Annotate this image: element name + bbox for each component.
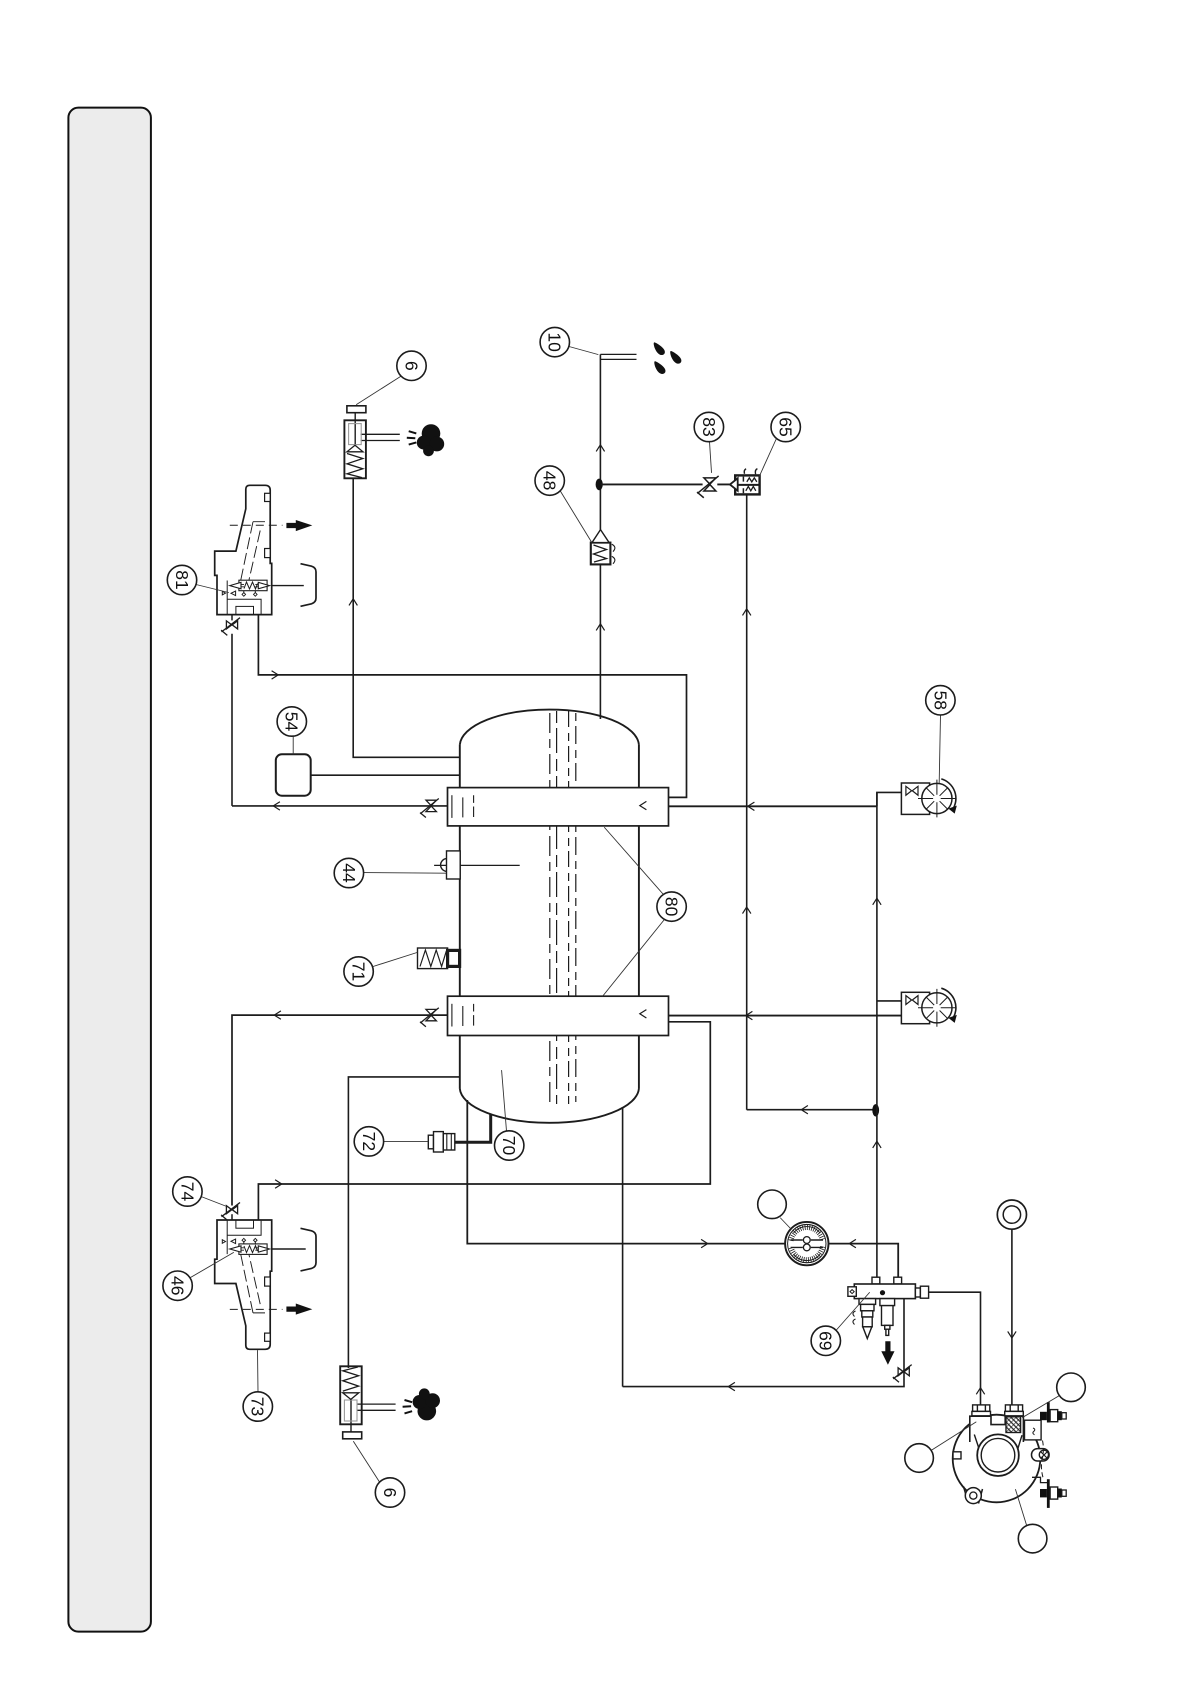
svg-text:6: 6 <box>380 1488 400 1498</box>
side tab bar <box>68 108 150 1632</box>
wire arrow up right vertical (upper) <box>873 898 881 905</box>
wire arrow up on pipe 10 <box>596 445 604 452</box>
wire arrow up on compressor left line <box>976 1388 984 1395</box>
wire: exhaust pipe 10 upper segment <box>599 354 601 529</box>
callout 58 <box>926 686 955 783</box>
wire arrow right on 81 supply loop <box>272 671 279 679</box>
svg-text:80: 80 <box>661 897 681 917</box>
wire: lower manifold second port down and across to valve 46 <box>258 1022 710 1221</box>
drain cock at upper band inlet <box>420 799 439 818</box>
wire arrow up on governor line <box>743 609 751 616</box>
mount bracket <box>301 564 317 607</box>
right top bolt fitting <box>1047 1402 1050 1422</box>
svg-text:46: 46 <box>167 1276 187 1295</box>
internal cavity lines <box>227 581 261 615</box>
internal cartridge <box>239 580 267 591</box>
svg-text:74: 74 <box>177 1182 197 1202</box>
wire arrow left on bottom return line <box>728 1382 735 1390</box>
valve body outline <box>215 485 272 614</box>
svg-text:81: 81 <box>172 570 192 589</box>
callout 44 <box>334 858 446 887</box>
svg-text:54: 54 <box>282 712 302 732</box>
callout 69 <box>811 1293 869 1356</box>
right ear <box>1032 1449 1050 1461</box>
node: junction dot right side <box>872 1104 879 1116</box>
drain cock 74 above hand valve 46 <box>221 1203 240 1221</box>
wire: bottom return line to trailer valve <box>623 1299 904 1387</box>
wire arrow left on rear sensor line <box>746 1011 753 1019</box>
brake unit 58 (front) <box>901 779 956 818</box>
callout 74 <box>173 1177 226 1206</box>
lower-left lug <box>964 1487 983 1504</box>
empty callout below compressor <box>1016 1490 1047 1553</box>
callout 65 <box>759 412 800 477</box>
compressor assembly <box>953 1402 1067 1508</box>
black direction arrow <box>286 520 312 531</box>
level plug 44 <box>441 851 461 879</box>
svg-text:70: 70 <box>499 1136 519 1156</box>
upper manifold band 80a <box>448 788 669 826</box>
safety valve 6 (top) <box>344 406 444 479</box>
ring terminal above compressor <box>997 1200 1026 1229</box>
wire: reservoir bottom right pipe down <box>622 1107 624 1387</box>
wire: check valve 48 to reservoir dome <box>599 564 601 719</box>
wire arrow left on gauge right segment <box>849 1239 856 1247</box>
svg-text:73: 73 <box>248 1397 268 1416</box>
callout 73 <box>243 1351 272 1422</box>
wire: drain plug 72 elbow <box>455 1115 491 1143</box>
wire: governor 65 down to rear circuit <box>746 494 748 1110</box>
empty callout upper right of compressor <box>1023 1373 1086 1418</box>
callout 81 <box>167 565 228 594</box>
air reservoir 80 shell <box>460 710 639 1123</box>
wire: pressure switch 54 to reservoir <box>311 774 460 776</box>
callout 72 <box>354 1127 428 1156</box>
left tab <box>953 1452 961 1459</box>
wire: compressor right port line from ring terminal <box>1011 1229 1013 1405</box>
wire: bottom sensor port link <box>877 1000 902 1002</box>
wire: reservoir bottom left pipe to gauge line <box>467 1100 785 1244</box>
hand control valve 46 (mirrored copy) <box>215 1214 316 1349</box>
pilot arrow <box>231 591 236 596</box>
wire arrow left on front axle line <box>748 802 755 810</box>
wire: upper manifold right to front axle line <box>669 805 877 807</box>
hand control valve 81 <box>215 485 316 620</box>
right bottom bolt fitting <box>1032 1477 1047 1482</box>
wire arrow up on valve-6 line <box>349 599 357 606</box>
callout 46 <box>163 1253 234 1301</box>
drain cock on trailer-valve return line <box>893 1365 912 1383</box>
wire arrow down on compressor right line <box>1008 1331 1016 1338</box>
callout 80 <box>603 828 687 997</box>
wire: trailer valve 69 right port to compressor left port <box>929 1292 981 1405</box>
trailer control valve 69 <box>848 1277 929 1365</box>
callout 70 <box>495 1071 524 1161</box>
side block with squiggle <box>1025 1420 1042 1440</box>
wire: hand valve 46 delivery stub <box>270 1248 306 1250</box>
wire: exhaust pipe 10 double outlet top <box>600 354 636 359</box>
unloader governor 65 <box>730 469 760 495</box>
pressure switch 54 <box>276 754 311 795</box>
wire: gauge line right segment down to trailer valve 69 <box>829 1244 899 1278</box>
wire: right vertical main (sensors to trailer valve 69) <box>876 792 878 1277</box>
brake unit 58 (rear) <box>901 988 956 1027</box>
wire: hand valve 81 supply port loop to upper manifold right end <box>258 615 686 797</box>
lever linkage <box>240 522 267 583</box>
callout 48 <box>535 466 592 542</box>
wire: jog up into top sensor port <box>877 792 902 806</box>
wire: lower manifold line (left) to hand valve 46 <box>232 1015 448 1205</box>
lower manifold band 80b <box>448 996 669 1035</box>
drain port stub <box>231 615 233 621</box>
svg-text:10: 10 <box>545 332 565 352</box>
drain cock at lower band inlet <box>420 1008 439 1027</box>
exhaust outlet 10 droplets <box>654 342 682 374</box>
callout 6 top <box>357 351 427 404</box>
check valve 48 <box>591 530 615 565</box>
wire arrow left on lower manifold line <box>274 1011 281 1019</box>
head <box>970 1416 1024 1442</box>
svg-text:44: 44 <box>339 863 359 883</box>
svg-text:48: 48 <box>540 471 560 490</box>
black arrow down (trailer valve exhaust) <box>881 1341 894 1365</box>
wire arrow left on upper manifold line <box>273 802 280 810</box>
wire: level probe 44 inner line <box>434 864 520 866</box>
empty callout near gauge <box>758 1190 791 1229</box>
svg-text:65: 65 <box>776 417 796 436</box>
flow arrow in upper band <box>640 801 647 809</box>
callout 83 <box>694 412 723 472</box>
svg-text:6: 6 <box>401 361 421 371</box>
drain plug 72 <box>428 1132 455 1152</box>
wire: safety valve 6 (top) to reservoir top <box>353 478 460 757</box>
handle notches <box>265 493 271 501</box>
wire arrow up below check valve <box>596 624 604 631</box>
twin pressure gauge <box>785 1222 828 1265</box>
wire: upper manifold line (left) <box>232 805 448 807</box>
exhaust cloud <box>417 424 444 456</box>
wire arrow left on junction link <box>801 1106 808 1114</box>
flow arrow in lower band <box>640 1010 647 1018</box>
wire arrow right on 46 supply loop <box>275 1180 282 1188</box>
callout 71 <box>344 953 417 987</box>
wire: governor line elbow to junction <box>747 1109 877 1111</box>
empty callout left of compressor <box>905 1422 976 1472</box>
svg-text:83: 83 <box>699 417 719 436</box>
wire: hand valve 81 drain port down to upper manifold line <box>231 634 233 806</box>
wire arrow right on gauge line <box>701 1239 708 1247</box>
wire: lower manifold right to rear sensor <box>669 1015 902 1017</box>
wire arrow up on governor line (mid) <box>743 907 751 914</box>
dashed pivot line <box>230 524 283 526</box>
safety valve 6 (lower, mirrored) <box>340 1366 440 1439</box>
wire: tee to drain cock 83 and governor 65 <box>600 483 730 485</box>
node: tee junction on pipe 10 <box>596 479 603 491</box>
svg-text:71: 71 <box>348 962 368 981</box>
callout 54 <box>277 707 306 754</box>
port bolts <box>972 1405 1023 1416</box>
callout 10 <box>540 327 598 356</box>
relief fitting 71 <box>418 948 460 969</box>
callout 6 bottom <box>354 1442 405 1508</box>
reservoir internal dip tube (dashed) <box>550 711 576 1104</box>
svg-text:69: 69 <box>816 1331 836 1350</box>
wire: hand valve 81 delivery stub <box>270 585 304 587</box>
drain cock 83 on tee line <box>697 476 719 498</box>
drain cock below hand valve 81 <box>221 618 240 636</box>
wire: reservoir bottom to safety valve 6 (lower) <box>348 1077 459 1368</box>
wire arrow up right vertical (lower) <box>873 1141 881 1148</box>
svg-text:72: 72 <box>359 1132 379 1151</box>
svg-text:58: 58 <box>930 691 950 710</box>
